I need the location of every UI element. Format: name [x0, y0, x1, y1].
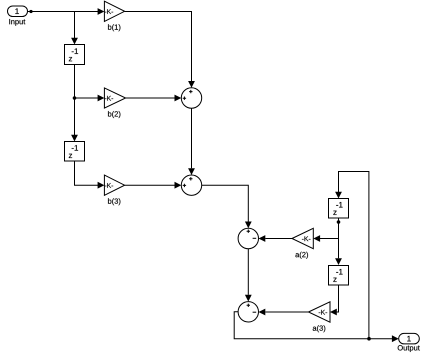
unit delay block 4 [329, 266, 349, 286]
junction dot on output line [367, 337, 371, 341]
wire feedback junction to gain a(2) [313, 235, 338, 242]
wire sum 1 to sum 2 [188, 108, 195, 175]
sum block 3 [238, 228, 258, 248]
gain a(3) [309, 302, 331, 332]
wire sum 3 to sum 4 [245, 249, 252, 302]
unit delay block 1 [65, 45, 85, 65]
unit delay block 2 [65, 142, 85, 162]
wire gain a(2) to sum 3 [259, 235, 293, 242]
gain a(2) [292, 228, 313, 258]
wire gain b(2) to sum 1 [126, 95, 182, 102]
wire gain b(1) to sum 1 [125, 12, 195, 88]
wire branch down to unit delay 1 [71, 12, 78, 45]
gain b(3) [104, 175, 124, 205]
unit delay block 3 [329, 199, 349, 219]
wire gain b(3) to sum 2 [125, 182, 182, 189]
junction dot below unit delay 1 [73, 96, 77, 100]
wire sum 2 to sum 3 [202, 185, 252, 228]
junction dot at Input branch [29, 10, 32, 13]
sum block 4 [238, 302, 258, 322]
gain b(2) [104, 88, 125, 118]
wire unit delay 2 to gain b(3) [75, 161, 105, 189]
sum block 1 [181, 88, 201, 108]
junction dot below unit delay 3 [337, 220, 341, 224]
outport Output [398, 333, 420, 352]
gain b(1) [104, 1, 124, 31]
wire unit delay 1 down to unit delay 2 [71, 65, 78, 142]
wire unit delay 4 to gain a(3) [330, 285, 339, 315]
inport Input [8, 6, 28, 26]
wire branch to gain b(2) [75, 95, 105, 102]
wire Input to gain b(1) [28, 8, 105, 15]
sum block 2 [181, 175, 201, 195]
wire feedback from output line to unit delay 3 [335, 172, 369, 339]
wire gain a(3) to sum 4 [259, 309, 309, 316]
wire sum 4 to outport Output [234, 312, 399, 342]
wire unit delay 3 to unit delay 4 [335, 218, 342, 265]
